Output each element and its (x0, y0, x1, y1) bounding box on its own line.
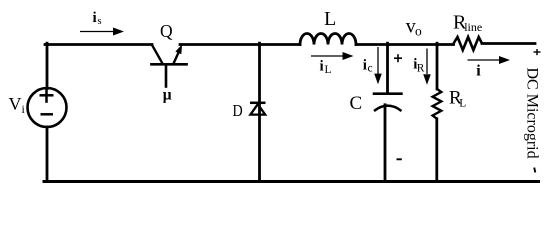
svg-text:i: i (93, 10, 97, 26)
svg-text:i: i (320, 59, 324, 75)
svg-text:C: C (350, 93, 363, 114)
svg-text:c: c (368, 63, 373, 75)
svg-text:Q: Q (160, 21, 173, 41)
svg-text:R: R (417, 62, 425, 74)
svg-text:L: L (459, 97, 466, 109)
svg-text:o: o (415, 24, 422, 39)
svg-text:L: L (324, 8, 336, 30)
svg-text:i: i (476, 63, 481, 80)
svg-text:s: s (98, 16, 102, 27)
svg-text:line: line (464, 20, 482, 34)
svg-text:L: L (325, 64, 332, 76)
svg-text:i: i (363, 58, 367, 74)
svg-text:D: D (233, 101, 243, 120)
svg-text:V: V (9, 94, 22, 114)
svg-text:μ: μ (163, 87, 172, 104)
svg-text:DC Microgrid: DC Microgrid (524, 68, 541, 159)
